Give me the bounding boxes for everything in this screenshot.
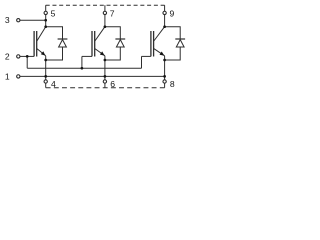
diode D3 cathode branch	[165, 27, 181, 39]
transistor Q1 body bar	[36, 31, 38, 57]
pin 4 circle	[44, 80, 47, 83]
terminal 3 circle	[17, 19, 20, 22]
diode D2 cathode branch	[105, 27, 120, 39]
wire emitter Q1 down	[45, 56, 47, 80]
pin 8 circle	[163, 80, 166, 83]
transistor Q3 emitter arrow	[160, 52, 165, 56]
diode D2 cathode bar	[115, 38, 125, 40]
transistor Q2 emitter lead	[95, 49, 105, 56]
diode D3 cathode bar	[175, 38, 185, 40]
svg-text:4: 4	[51, 79, 56, 89]
node emitter/anode Q2 dot	[104, 59, 107, 62]
svg-text:8: 8	[170, 79, 175, 89]
node collector Q1 dot	[44, 25, 47, 28]
wire gate bus horizontal	[27, 67, 141, 69]
diode D2 triangle	[116, 40, 124, 47]
transistor Q2 emitter arrow	[100, 51, 105, 55]
transistor Q3 collector lead	[154, 27, 165, 41]
module outline dashed bottom edge	[46, 87, 165, 89]
node emitter bus Q2 dot	[104, 75, 107, 78]
wire gate bus riser Q2	[81, 56, 83, 68]
junction dot terminal 3 / collector column	[44, 19, 47, 22]
wire pin 7 to collector node	[104, 15, 106, 27]
transistor Q3 body bar	[153, 31, 155, 57]
terminal 2 circle	[17, 55, 20, 58]
diode D1 cathode bar	[58, 38, 68, 40]
diode D3 triangle	[176, 40, 184, 47]
wire terminal 2 / gate lead G1	[20, 55, 34, 57]
junction dot terminal 2 / gate bus	[26, 55, 29, 58]
wire pin 9 to collector node	[164, 15, 166, 27]
transistor Q1 emitter arrow	[41, 51, 46, 55]
pin 6 circle	[103, 80, 106, 83]
svg-text:2: 2	[5, 52, 10, 62]
wire pin 5 to collector node	[45, 15, 47, 27]
transistor Q2 body bar	[94, 31, 96, 57]
node collector Q3 dot	[163, 25, 166, 28]
wire emitter bus (terminal 1)	[20, 75, 165, 77]
svg-text:3: 3	[5, 15, 10, 25]
pin 8 stem	[164, 83, 166, 88]
diode D1 cathode branch	[46, 27, 63, 39]
transistor Q2 collector lead	[95, 27, 105, 41]
node emitter bus Q3 dot	[163, 75, 166, 78]
node emitter/anode Q3 dot	[163, 59, 166, 62]
transistor Q1 collector lead	[37, 27, 46, 41]
diode D3 anode return	[165, 47, 181, 60]
svg-text:1: 1	[5, 72, 10, 82]
svg-text:7: 7	[110, 8, 115, 18]
diode D1 triangle	[59, 40, 67, 47]
pin 4 stem	[45, 83, 47, 88]
diode D1 anode return	[46, 47, 63, 60]
transistor Q1 gate bar	[33, 31, 35, 56]
node emitter/anode Q1 dot	[44, 59, 47, 62]
wire emitter Q3 down	[164, 56, 166, 80]
wire gate bus riser Q3	[141, 56, 143, 68]
pin 6 stem	[104, 83, 106, 88]
svg-text:9: 9	[170, 8, 175, 18]
transistor Q1 emitter lead	[37, 49, 46, 56]
terminal 1 circle	[17, 75, 20, 78]
junction dot gate bus Q2 tap	[81, 67, 84, 70]
wire emitter Q2 down	[104, 56, 106, 80]
pin 5 circle	[44, 11, 47, 14]
pin 7 circle	[103, 11, 106, 14]
pin 7 stem	[104, 5, 106, 11]
transistor Q3 gate bar	[150, 31, 152, 56]
svg-text:6: 6	[110, 79, 115, 89]
wire gate bus drop	[26, 56, 28, 68]
wire terminal 3 to node C1	[20, 19, 46, 21]
wire gate lead Q3	[142, 55, 151, 57]
wire gate lead Q2	[82, 55, 92, 57]
pin 9 stem	[164, 5, 166, 11]
pin 5 stem	[45, 5, 47, 11]
module outline dashed top edge	[46, 4, 165, 6]
node collector Q2 dot	[104, 25, 107, 28]
node emitter bus Q1 dot	[44, 75, 47, 78]
transistor Q3 emitter lead	[154, 49, 165, 56]
svg-text:5: 5	[51, 8, 56, 18]
pin 9 circle	[163, 11, 166, 14]
diode D2 anode return	[105, 47, 120, 60]
transistor Q2 gate bar	[91, 31, 93, 56]
